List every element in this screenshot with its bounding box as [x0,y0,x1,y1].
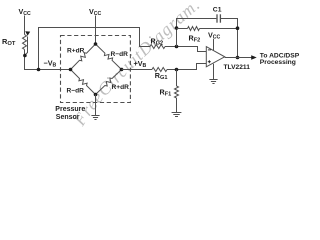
resistor RF1 [176,70,178,87]
svg-text:R−dR: R−dR [111,51,129,58]
resistor RG2 [150,45,165,49]
wire inverting node up to feedback [177,19,217,47]
svg-text:R−dR: R−dR [67,87,85,94]
svg-text:R+dR: R+dR [112,84,130,91]
wire ROT bottom to -VB node [25,50,71,70]
svg-text:C1: C1 [213,7,222,14]
svg-text:TLV2211: TLV2211 [224,64,251,71]
output arrow to ADC [251,55,257,60]
wire -VB rail over top to RG2 [39,28,151,70]
watermark FreeCircuitDiagram.Com [83,2,206,127]
node feedback/output junctions [236,26,240,30]
wire RF1 to ground [176,98,178,113]
node bridge left junction [69,68,73,72]
ground (RF1) [172,113,182,117]
svg-text:Sensor: Sensor [56,114,80,121]
wire output [225,57,253,59]
resistor ROT (offset trim) [23,35,27,50]
node bridge bottom junction [94,93,98,97]
wire +VB to RG1 [122,69,153,71]
capacitor C1 [216,14,218,22]
wire bridge bottom to ground [95,95,97,116]
ground (op-amp) [209,80,217,84]
wire C1 to output node [221,19,238,58]
resistor R+dR (bridge top-left) [71,44,96,70]
resistor R-dR (bridge bottom-left) [71,70,96,95]
wire RG1 to non-inverting input [167,64,206,70]
node inverting junction [175,45,179,49]
resistor RF2 [177,28,188,30]
svg-text:R+dR: R+dR [67,48,85,55]
resistor R+dR (bridge bottom-right) [96,70,122,95]
svg-text:Pressure: Pressure [55,106,85,113]
wire op-amp to ground [213,64,215,80]
wire VCC to op-amp [213,39,215,50]
resistor R-dR (bridge top-right) [96,44,122,70]
node bridge top junction [94,42,98,46]
node bridge right junction [120,68,124,72]
node non-inverting junction [175,68,179,72]
node RF2 tap [175,26,179,30]
resistor RG1 [152,68,167,72]
wire RG2 to inverting input [165,47,206,52]
svg-text:Processing: Processing [260,59,296,66]
pressure sensor dashed box [61,36,131,103]
wire VCC to bridge top [95,16,97,45]
wire VCC to ROT top [24,16,26,35]
op-amp U1 TLV2211 [206,47,224,67]
ROT wiper arrow [25,37,28,56]
ground (bridge) [91,116,99,120]
